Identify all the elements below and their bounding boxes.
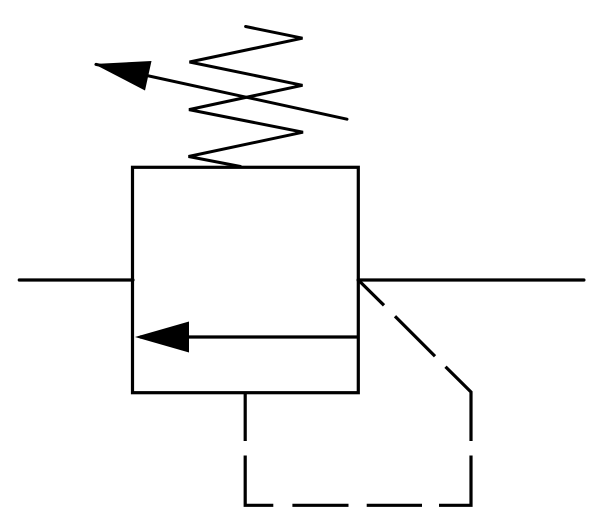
spring (adjustable spring zigzag above valve envelope) <box>189 27 304 167</box>
pilot line dash C (diagonal-to-vertical corner) <box>446 367 472 441</box>
pilot line dash E (bottom horizontal) <box>367 504 422 507</box>
adjustment arrowhead <box>94 61 152 91</box>
pilot line dash F (bottom horizontal) <box>292 504 348 507</box>
pilot line dash G (horizontal-to-vertical corner) <box>245 456 273 506</box>
pilot line dash A (diagonal from right port) <box>359 280 384 305</box>
pilot line dash D (vertical-to-horizontal corner) <box>439 456 471 506</box>
wire: right port line <box>358 278 584 281</box>
wire: left port line <box>19 278 133 281</box>
flow-path arrow shaft (inside envelope) <box>140 335 358 338</box>
flow-path arrowhead <box>135 322 189 353</box>
pilot line dash B (diagonal) <box>395 316 435 356</box>
pilot line dash H (vertical, joins envelope bottom) <box>244 393 247 441</box>
valve envelope (square body) <box>133 167 359 392</box>
adjustment arrow shaft <box>96 64 347 119</box>
